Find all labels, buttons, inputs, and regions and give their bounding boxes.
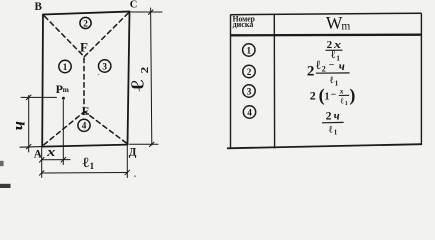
- svg-text:4: 4: [82, 121, 87, 131]
- svg-text:В: В: [35, 1, 43, 13]
- svg-text:1: 1: [345, 101, 348, 107]
- svg-text:2: 2: [326, 111, 332, 123]
- svg-text:W: W: [326, 13, 343, 33]
- svg-text:1: 1: [335, 79, 339, 87]
- svg-text:m: m: [63, 85, 70, 94]
- svg-text:ч: ч: [334, 110, 340, 122]
- svg-text:ℓ: ℓ: [315, 58, 321, 72]
- svg-text:2: 2: [138, 67, 151, 74]
- svg-text:3: 3: [247, 86, 252, 96]
- svg-text:2: 2: [247, 67, 252, 77]
- svg-text:4: 4: [247, 107, 252, 117]
- svg-text:−: −: [329, 60, 335, 71]
- svg-text:1: 1: [325, 91, 330, 102]
- svg-text:ℓ: ℓ: [127, 79, 148, 91]
- svg-text:1: 1: [90, 161, 95, 171]
- svg-text:Д: Д: [129, 146, 137, 158]
- svg-text:2: 2: [322, 64, 326, 73]
- svg-text:−: −: [331, 89, 337, 100]
- svg-text:ℓ: ℓ: [329, 124, 333, 135]
- svg-text:m: m: [341, 20, 350, 32]
- svg-text:ч: ч: [8, 121, 28, 130]
- svg-text:ч: ч: [339, 61, 345, 73]
- svg-text:1: 1: [334, 129, 338, 137]
- svg-text:ℓ: ℓ: [330, 75, 334, 86]
- svg-text:): ): [349, 85, 355, 106]
- svg-text:Е: Е: [82, 106, 90, 118]
- svg-text:x: x: [339, 86, 344, 95]
- svg-text:1: 1: [247, 45, 252, 55]
- svg-text:2: 2: [307, 64, 315, 80]
- svg-text:x: x: [46, 144, 56, 159]
- svg-text:2: 2: [83, 18, 88, 28]
- svg-text:1: 1: [63, 62, 68, 72]
- svg-text:2: 2: [310, 88, 316, 102]
- svg-text:диска: диска: [233, 19, 254, 29]
- svg-text:А: А: [34, 148, 42, 160]
- svg-text:3: 3: [102, 61, 107, 71]
- svg-text:F: F: [80, 39, 88, 54]
- svg-text:С: С: [130, 0, 138, 11]
